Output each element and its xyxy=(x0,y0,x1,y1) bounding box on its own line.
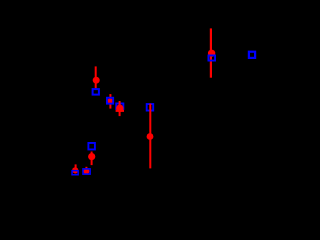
data point 3: red horizontal error bar xyxy=(116,110,124,112)
data point 5: red circle marker xyxy=(88,153,95,160)
data point 6: red error bar xyxy=(75,164,77,173)
data point 6: red circle marker xyxy=(72,167,78,173)
data point 2: blue open square marker xyxy=(107,98,113,104)
data point 5: blue open square marker xyxy=(88,143,95,150)
data point 4: red circle marker xyxy=(147,133,154,140)
data point 7: red error bar xyxy=(85,167,87,174)
legend: blue open square marker xyxy=(249,52,255,58)
data point 3: blue open square marker xyxy=(116,103,123,109)
data point 1: blue open square marker xyxy=(93,89,99,95)
data point 8: red circle marker xyxy=(208,50,215,57)
data point 2: red error bar xyxy=(109,94,111,109)
data point 3: red circle marker xyxy=(116,105,123,112)
data point 5: red error bar xyxy=(91,152,93,166)
data point 4: blue open square marker xyxy=(147,104,154,111)
data point 1: red circle marker xyxy=(93,77,100,84)
data point 8: red error bar xyxy=(210,28,212,77)
data point 2: red circle marker xyxy=(107,98,113,104)
data point 4: red error bar xyxy=(149,104,151,169)
data point 6: blue open square marker xyxy=(72,171,78,175)
data point 7: blue open square marker xyxy=(83,169,90,174)
data point 8: blue open square marker xyxy=(208,55,215,60)
data point 3: red error bar xyxy=(119,101,121,116)
data point 7: red circle marker xyxy=(83,168,89,174)
data point 1: red error bar xyxy=(95,66,97,88)
